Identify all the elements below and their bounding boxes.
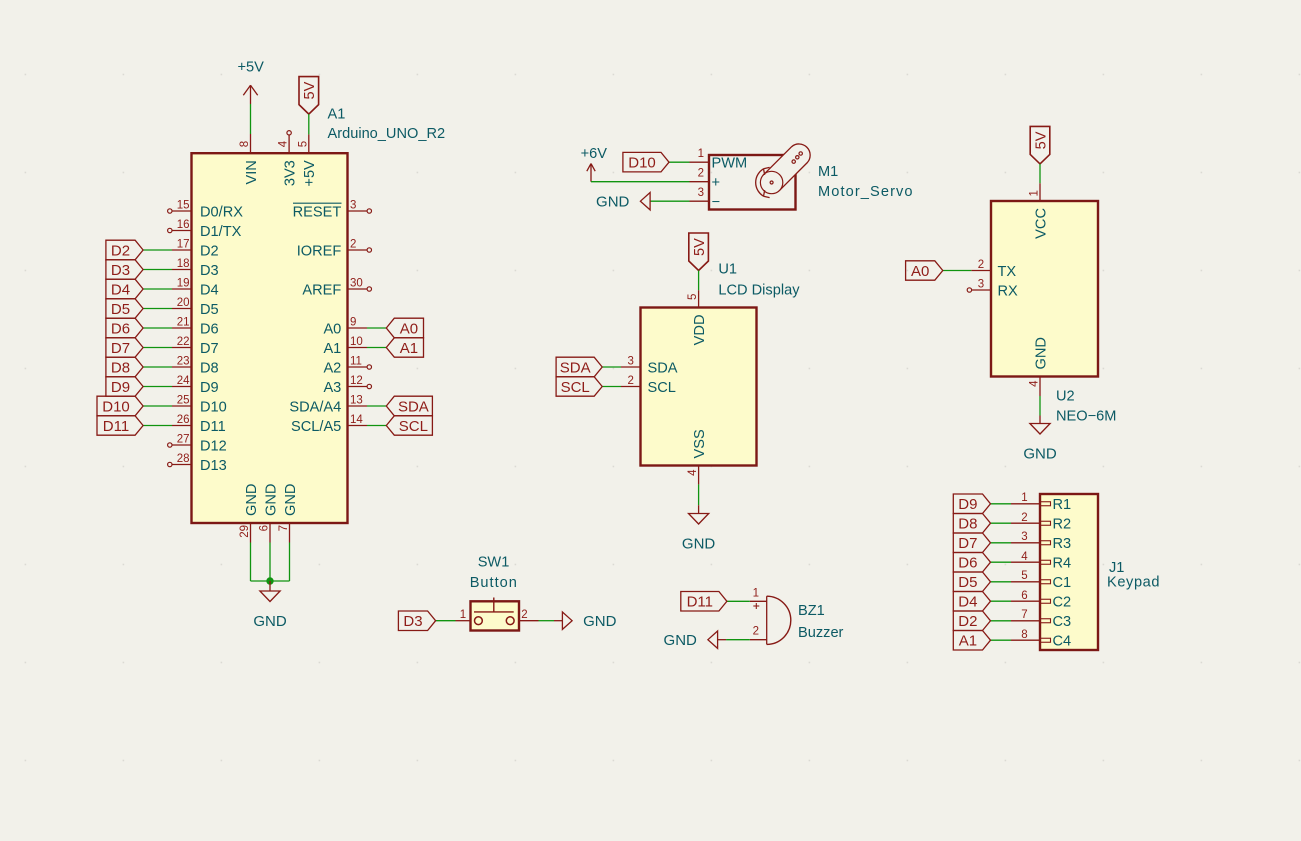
svg-text:D6: D6: [200, 321, 219, 337]
pin 28 D13: [168, 453, 227, 474]
svg-text:5: 5: [1021, 570, 1027, 582]
svg-text:A2: A2: [323, 360, 341, 376]
svg-text:14: 14: [350, 414, 363, 426]
pin 1 VCC: [1029, 183, 1050, 239]
connector J1 Keypad body: [1040, 494, 1098, 650]
global label A0: [906, 261, 943, 280]
wire pin 9 to A0: [367, 327, 386, 329]
svg-text:D1/TX: D1/TX: [200, 224, 242, 240]
wire D5 to pin 20: [143, 308, 172, 310]
pin 2 of BZ1: [750, 626, 767, 640]
svg-text:VDD: VDD: [692, 315, 708, 346]
pin 7 C3: [1011, 609, 1071, 630]
svg-text:16: 16: [177, 219, 190, 231]
global label D5: [106, 299, 143, 318]
wire pin 14 to SCL: [367, 425, 386, 427]
IC U2 NEO-6M body: [991, 201, 1098, 377]
pin 24 D9: [172, 375, 219, 396]
svg-text:7: 7: [278, 525, 290, 531]
wire pin 13 to SDA: [367, 405, 386, 407]
pin 2 of SW1: [519, 609, 539, 621]
svg-text:D5: D5: [958, 574, 977, 591]
svg-text:20: 20: [177, 297, 190, 309]
svg-text:GND: GND: [664, 632, 698, 649]
svg-text:8: 8: [239, 141, 251, 147]
ground symbol: [1023, 424, 1057, 463]
pin 5 VDD: [687, 290, 708, 345]
pin 10 A1: [323, 336, 367, 357]
svg-text:A1: A1: [959, 633, 977, 650]
svg-text:1: 1: [1021, 492, 1027, 504]
global label D6: [106, 318, 143, 338]
svg-text:+: +: [712, 175, 721, 191]
svg-text:D10: D10: [628, 155, 656, 172]
button contacts: [474, 598, 514, 625]
wire GND bus horizontal: [251, 580, 290, 582]
wire BZ1 pin 2 to GND: [726, 639, 750, 641]
global label A1: [953, 631, 990, 651]
svg-text:R1: R1: [1053, 497, 1072, 513]
svg-text:5V: 5V: [692, 238, 708, 256]
wire GND pin 7 down: [289, 543, 291, 582]
pin 14 SCL/A5: [291, 414, 367, 435]
svg-text:AREF: AREF: [302, 282, 341, 298]
svg-text:RX: RX: [998, 283, 1019, 299]
svg-text:D12: D12: [200, 438, 227, 454]
svg-text:GND: GND: [1023, 446, 1057, 463]
svg-text:2: 2: [350, 239, 356, 251]
pin 1 PWM: [690, 148, 748, 171]
pin 8 C4: [1011, 629, 1071, 650]
svg-text:RESET: RESET: [293, 204, 342, 220]
svg-text:3: 3: [978, 279, 984, 291]
pin 12 A3: [323, 375, 371, 396]
wire servo - to GND: [650, 200, 689, 202]
wire D9 to pin 1: [991, 503, 1012, 505]
global label SDA: [386, 396, 432, 416]
IC U1 LCD Display body: [641, 308, 757, 466]
svg-text:Keypad: Keypad: [1107, 575, 1160, 591]
pin 1 + of BZ1: [750, 587, 767, 609]
global label SCL: [556, 377, 602, 396]
svg-text:D10: D10: [102, 398, 130, 415]
global label D2: [953, 611, 990, 631]
pin 4 VSS: [687, 429, 708, 484]
svg-text:12: 12: [350, 375, 363, 387]
pin 6 GND: [259, 484, 280, 543]
svg-text:2: 2: [627, 375, 633, 387]
pin 2 IOREF: [297, 239, 372, 260]
pin 2 TX: [971, 259, 1016, 280]
svg-text:GND: GND: [583, 613, 617, 630]
svg-text:1: 1: [460, 609, 466, 621]
svg-text:A0: A0: [400, 320, 418, 337]
svg-text:D4: D4: [958, 594, 977, 611]
svg-text:D2: D2: [958, 613, 977, 630]
pin 15 D0/RX: [168, 200, 244, 221]
global label D8: [106, 357, 143, 377]
pin 2 SCL: [621, 375, 676, 396]
wire D5 to pin 5: [991, 581, 1012, 583]
wire D8 to pin 23: [143, 366, 172, 368]
svg-text:D8: D8: [200, 360, 219, 376]
global label D4: [953, 592, 990, 612]
svg-text:D3: D3: [403, 613, 422, 630]
pin 7 GND: [278, 484, 299, 543]
wire D7 to pin 3: [991, 542, 1012, 544]
svg-text:A1: A1: [400, 340, 418, 357]
wire +5V to VIN: [250, 104, 252, 134]
svg-text:5: 5: [297, 141, 309, 147]
global label D2: [106, 240, 143, 260]
svg-text:Buzzer: Buzzer: [798, 625, 844, 641]
wire SW1 pin 2 to GND: [539, 620, 555, 622]
svg-text:D0/RX: D0/RX: [200, 204, 243, 220]
wire D10 to PWM: [669, 161, 690, 163]
pin 22 D7: [172, 336, 219, 357]
buzzer BZ1 body: [767, 596, 791, 644]
svg-text:GND: GND: [596, 194, 630, 211]
wire VSS to ground: [698, 484, 700, 505]
global label D6: [953, 553, 990, 573]
wire pin 10 to A1: [367, 347, 386, 349]
svg-text:2: 2: [521, 609, 527, 621]
svg-text:D11: D11: [103, 418, 129, 435]
svg-text:D8: D8: [958, 516, 977, 533]
pin 4 GND: [1029, 337, 1050, 396]
svg-text:D9: D9: [200, 380, 219, 396]
svg-text:U1: U1: [718, 262, 737, 278]
global label D9: [953, 494, 990, 514]
svg-text:30: 30: [350, 278, 363, 290]
pin 3 RESET: [293, 200, 372, 221]
svg-text:SCL: SCL: [648, 380, 676, 396]
svg-text:D9: D9: [958, 496, 977, 513]
svg-text:+5V: +5V: [302, 160, 318, 187]
svg-text:D13: D13: [200, 458, 227, 474]
global label D5: [953, 572, 990, 592]
svg-text:PWM: PWM: [712, 156, 748, 172]
svg-text:BZ1: BZ1: [798, 603, 825, 619]
svg-text:3: 3: [698, 187, 704, 199]
wire D4 to pin 19: [143, 288, 172, 290]
wire GND pin 6 down: [269, 543, 271, 582]
svg-text:D2: D2: [200, 243, 219, 259]
svg-text:D7: D7: [111, 340, 130, 357]
svg-text:SCL: SCL: [561, 379, 590, 396]
pin 4 3V3 unconnected: [278, 131, 299, 187]
svg-text:24: 24: [177, 375, 190, 387]
svg-text:4: 4: [687, 469, 699, 476]
svg-text:D3: D3: [200, 263, 219, 279]
svg-text:29: 29: [239, 525, 251, 538]
wire D11 to BZ1 pin 1: [727, 600, 750, 602]
svg-text:Motor_Servo: Motor_Servo: [818, 184, 914, 200]
svg-text:3: 3: [1021, 531, 1027, 543]
pin 13 SDA/A4: [289, 395, 367, 416]
svg-text:15: 15: [177, 200, 190, 212]
svg-text:Button: Button: [470, 575, 518, 591]
svg-text:4: 4: [278, 140, 290, 147]
svg-text:SDA/A4: SDA/A4: [289, 399, 341, 415]
global label D10: [97, 396, 143, 416]
svg-text:4: 4: [1021, 551, 1028, 563]
svg-text:SCL: SCL: [399, 418, 428, 435]
wire 5V to VDD: [698, 271, 700, 291]
wire D10 to pin 25: [143, 405, 172, 407]
svg-text:2: 2: [698, 168, 704, 180]
wire D6 to pin 21: [143, 327, 172, 329]
pin 17 D2: [172, 239, 219, 260]
svg-text:SW1: SW1: [478, 555, 510, 571]
svg-text:C1: C1: [1053, 575, 1072, 591]
wire D8 to pin 2: [991, 522, 1012, 524]
svg-text:3: 3: [350, 200, 356, 212]
svg-text:25: 25: [177, 395, 190, 407]
svg-text:D4: D4: [200, 282, 219, 298]
svg-text:11: 11: [350, 356, 362, 368]
wire D6 to pin 4: [991, 561, 1012, 563]
svg-text:9: 9: [350, 317, 356, 329]
svg-text:D6: D6: [958, 555, 977, 572]
svg-text:GND: GND: [253, 613, 287, 630]
svg-text:A0: A0: [911, 263, 929, 280]
svg-text:D2: D2: [111, 242, 130, 259]
switch SW1 Button body: [471, 601, 520, 630]
svg-text:VSS: VSS: [692, 429, 708, 458]
power symbol 5V: [299, 77, 319, 115]
svg-text:D5: D5: [200, 302, 219, 318]
svg-text:D10: D10: [200, 399, 227, 415]
global label D10: [623, 152, 669, 172]
global label D3: [398, 611, 435, 631]
svg-text:SCL/A5: SCL/A5: [291, 419, 341, 435]
pin 2 R2: [1011, 512, 1071, 533]
global label D9: [106, 377, 143, 396]
svg-text:D3: D3: [111, 262, 130, 279]
svg-text:NEO−6M: NEO−6M: [1056, 409, 1116, 425]
pin 3 SDA: [621, 356, 678, 377]
svg-text:D6: D6: [111, 320, 130, 337]
svg-text:1: 1: [1029, 190, 1041, 196]
global label A0: [386, 318, 423, 338]
wire D3 to SW1 pin 1: [436, 620, 456, 622]
svg-text:2: 2: [753, 626, 759, 638]
power symbol +6V: [581, 146, 608, 182]
global label A1: [386, 338, 423, 357]
wire D4 to pin 6: [991, 600, 1012, 602]
svg-text:6: 6: [259, 525, 271, 531]
svg-text:GND: GND: [283, 484, 299, 516]
svg-text:D11: D11: [687, 594, 713, 611]
pin 3 RX unconnected: [967, 279, 1018, 300]
svg-text:D5: D5: [111, 301, 130, 318]
ground symbol: [253, 591, 287, 630]
pin 26 D11: [172, 414, 226, 435]
svg-text:18: 18: [177, 258, 190, 270]
wire A1 to pin 8: [991, 639, 1012, 641]
ground symbol: [682, 514, 716, 553]
svg-text:R3: R3: [1053, 536, 1072, 552]
svg-text:D11: D11: [200, 419, 226, 435]
junction GND: [266, 577, 273, 584]
svg-text:C3: C3: [1053, 614, 1072, 630]
svg-text:M1: M1: [818, 164, 838, 180]
motor M1 Motor_Servo body: [709, 155, 796, 210]
svg-text:R4: R4: [1053, 556, 1072, 572]
svg-text:−: −: [712, 195, 721, 211]
svg-text:5: 5: [687, 294, 699, 300]
global label GND: [562, 612, 616, 630]
global label D4: [106, 279, 143, 299]
svg-text:VIN: VIN: [244, 160, 260, 184]
servo motor icon: [756, 144, 810, 198]
svg-text:+5V: +5V: [238, 60, 265, 76]
pin 23 D8: [172, 356, 219, 377]
wire D7 to pin 22: [143, 347, 172, 349]
global label D11: [97, 416, 143, 435]
wire junction to ground: [269, 581, 271, 591]
pin 3 -: [690, 187, 721, 210]
svg-text:5V: 5V: [1033, 131, 1049, 149]
pin 6 C2: [1011, 590, 1071, 611]
svg-text:17: 17: [177, 239, 190, 251]
svg-text:2: 2: [978, 259, 984, 271]
wire D2 to pin 7: [991, 620, 1012, 622]
power symbol 5V: [689, 233, 709, 271]
svg-text:19: 19: [177, 278, 190, 290]
pin 4 R4: [1011, 551, 1071, 572]
svg-text:2: 2: [1021, 512, 1027, 524]
svg-text:A1: A1: [328, 107, 346, 123]
svg-text:8: 8: [1021, 629, 1027, 641]
svg-text:GND: GND: [682, 536, 716, 553]
global label D8: [953, 514, 990, 534]
svg-text:3: 3: [627, 356, 633, 368]
global label SDA: [556, 357, 602, 377]
svg-text:D7: D7: [200, 341, 219, 357]
svg-text:D4: D4: [111, 281, 130, 298]
pin 9 A0: [323, 317, 367, 338]
svg-text:13: 13: [350, 395, 363, 407]
power symbol 5V: [1030, 126, 1050, 163]
pin 8 VIN: [239, 134, 260, 185]
svg-text:27: 27: [177, 434, 190, 446]
svg-text:4: 4: [1029, 380, 1041, 387]
pin 21 D6: [172, 317, 219, 338]
wire GND pin 29 down: [250, 543, 252, 582]
pin 19 D4: [172, 278, 219, 299]
svg-text:A1: A1: [323, 341, 341, 357]
pin 27 D12: [168, 434, 227, 455]
wire D11 to pin 26: [143, 425, 172, 427]
svg-text:Arduino_UNO_R2: Arduino_UNO_R2: [328, 126, 446, 142]
global label D7: [953, 533, 990, 553]
svg-text:6: 6: [1021, 590, 1027, 602]
wire D2 to pin 17: [143, 249, 172, 251]
svg-text:1: 1: [753, 587, 759, 599]
svg-text:SDA: SDA: [398, 398, 429, 415]
pin 16 D1/TX: [168, 219, 242, 240]
svg-text:A0: A0: [323, 321, 341, 337]
svg-text:D8: D8: [111, 359, 130, 376]
svg-text:IOREF: IOREF: [297, 243, 342, 259]
wire SCL label to pin 2: [602, 386, 621, 388]
svg-text:5V: 5V: [302, 81, 318, 99]
pin 3 R3: [1011, 531, 1071, 552]
svg-text:23: 23: [177, 356, 190, 368]
pin 18 D3: [172, 258, 219, 279]
svg-text:21: 21: [177, 317, 190, 329]
pin 29 GND: [239, 484, 260, 543]
wire +6V to servo +: [591, 181, 690, 183]
svg-text:+6V: +6V: [581, 146, 608, 162]
svg-text:3V3: 3V3: [282, 160, 298, 186]
svg-text:22: 22: [177, 336, 190, 348]
svg-text:1: 1: [698, 148, 704, 160]
global label GND: [596, 193, 650, 211]
pin 5 +5V: [297, 134, 318, 186]
svg-text:U2: U2: [1056, 389, 1075, 405]
wire D9 to pin 24: [143, 386, 172, 388]
global label GND: [664, 631, 718, 649]
svg-text:GND: GND: [244, 484, 260, 516]
global label D11: [681, 592, 727, 612]
pin 1 of SW1: [456, 609, 471, 621]
svg-text:GND: GND: [1033, 337, 1049, 369]
svg-text:26: 26: [177, 414, 190, 426]
svg-text:A3: A3: [323, 380, 341, 396]
svg-text:D9: D9: [111, 379, 130, 396]
pin 20 D5: [172, 297, 219, 318]
svg-text:VCC: VCC: [1033, 208, 1049, 239]
pin 11 A2: [323, 356, 371, 377]
wire SDA label to pin 3: [602, 366, 621, 368]
svg-text:7: 7: [1021, 609, 1027, 621]
svg-text:D7: D7: [958, 535, 977, 552]
wire D3 to pin 18: [143, 269, 172, 271]
svg-text:10: 10: [350, 336, 363, 348]
wire 5V to VCC: [1039, 164, 1041, 183]
svg-text:C2: C2: [1053, 595, 1072, 611]
wire GND pin to ground: [1039, 396, 1041, 416]
svg-text:28: 28: [177, 453, 190, 465]
wire A0 to TX: [943, 270, 972, 272]
wire 5V to +5V pin: [308, 114, 310, 134]
pin 5 C1: [1011, 570, 1071, 591]
power symbol +5V: [238, 60, 265, 105]
svg-text:GND: GND: [263, 484, 279, 516]
pin 1 R1: [1011, 492, 1071, 513]
IC A1 Arduino_UNO_R2 body: [192, 153, 348, 523]
pin 25 D10: [172, 395, 227, 416]
svg-text:TX: TX: [998, 264, 1017, 280]
svg-text:SDA: SDA: [648, 360, 678, 376]
pin 2 +: [690, 168, 721, 191]
svg-text:C4: C4: [1053, 634, 1072, 650]
global label D3: [106, 260, 143, 279]
svg-text:SDA: SDA: [560, 359, 591, 376]
svg-text:LCD Display: LCD Display: [718, 283, 800, 299]
global label D7: [106, 338, 143, 357]
svg-text:R2: R2: [1053, 517, 1072, 533]
global label SCL: [386, 416, 432, 435]
pin 30 AREF: [302, 278, 371, 299]
